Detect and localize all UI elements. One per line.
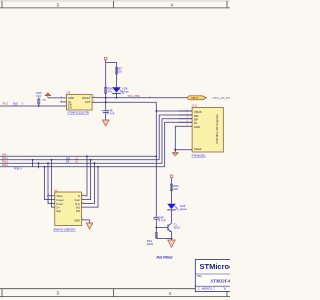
svg-text:D: D xyxy=(78,194,80,198)
svg-text:Shield: Shield xyxy=(194,147,202,151)
svg-text:USB Micro-AB receptacle: USB Micro-AB receptacle xyxy=(215,114,219,144)
svg-text:Rsp: Rsp xyxy=(57,209,62,213)
svg-text:OTG_FS_PSO: OTG_FS_PSO xyxy=(212,96,230,100)
svg-text:GND: GND xyxy=(68,96,74,100)
svg-text:47k: 47k xyxy=(108,90,113,94)
svg-text:STMPS2151STR: STMPS2151STR xyxy=(68,111,89,115)
svg-text:9013: 9013 xyxy=(174,226,181,230)
svg-text:PA10: PA10 xyxy=(2,164,9,167)
svg-text:[N/A]: [N/A] xyxy=(147,242,153,246)
svg-text:R34 0: R34 0 xyxy=(14,166,22,170)
svg-text:PA12: PA12 xyxy=(2,161,9,164)
svg-text:5V0_USB: 5V0_USB xyxy=(128,94,140,98)
svg-text:Title:: Title: xyxy=(197,274,203,278)
svg-text:STMicroel: STMicroel xyxy=(200,262,231,271)
svg-text:D-out: D-out xyxy=(57,202,64,206)
svg-text:FAULT: FAULT xyxy=(82,96,91,100)
svg-text:U3: U3 xyxy=(67,91,71,95)
svg-text:U2: U2 xyxy=(54,188,58,192)
svg-text:IN2: IN2 xyxy=(76,209,81,213)
svg-text:EN: EN xyxy=(68,105,72,109)
svg-text:Vbus: Vbus xyxy=(57,194,64,198)
svg-text:4.7nF: 4.7nF xyxy=(159,219,166,223)
svg-text:GND: GND xyxy=(74,218,80,222)
svg-text:Not Fitted: Not Fitted xyxy=(157,255,174,259)
svg-text:475060001: 475060001 xyxy=(192,154,206,158)
svg-text:4.7uF: 4.7uF xyxy=(107,112,114,116)
svg-text:5V0: 5V0 xyxy=(13,101,18,105)
svg-text:D+: D+ xyxy=(57,206,61,210)
svg-text:PC0: PC0 xyxy=(3,101,9,105)
svg-text:GND: GND xyxy=(194,125,200,129)
svg-text:Vbus: Vbus xyxy=(122,90,129,94)
svg-text:N/A: N/A xyxy=(36,94,41,98)
svg-text:IN1: IN1 xyxy=(76,206,81,210)
svg-text:D-in: D-in xyxy=(75,202,80,206)
svg-text:VBUS: VBUS xyxy=(191,96,198,100)
svg-text:green: green xyxy=(180,207,188,211)
svg-text:EMIF02-USB03F2: EMIF02-USB03F2 xyxy=(54,227,76,231)
svg-text:CN1: CN1 xyxy=(192,103,198,107)
svg-text:C:..MB997D_T: C:..MB997D_T xyxy=(198,287,216,291)
svg-text:STM32F4: STM32F4 xyxy=(211,278,231,283)
svg-text:DP: DP xyxy=(66,161,70,164)
svg-text:D+out: D+out xyxy=(57,198,64,202)
svg-text:D+in: D+in xyxy=(75,198,81,202)
svg-text:OUT: OUT xyxy=(85,100,91,104)
svg-text:5V: 5V xyxy=(43,98,47,102)
svg-text:220: 220 xyxy=(173,187,178,191)
